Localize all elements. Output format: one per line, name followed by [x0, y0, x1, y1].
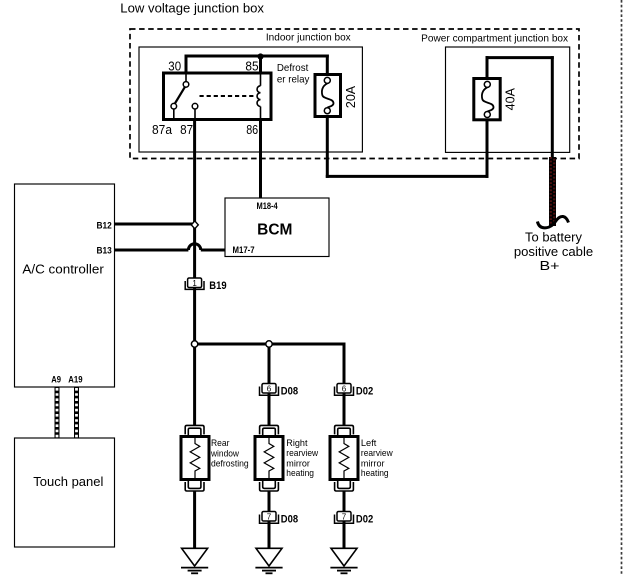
- svg-text:7: 7: [342, 512, 347, 521]
- svg-text:B19: B19: [209, 280, 226, 292]
- svg-text:To battery: To battery: [525, 230, 583, 244]
- svg-text:A19: A19: [68, 375, 82, 386]
- svg-text:heating: heating: [361, 468, 389, 479]
- svg-text:er relay: er relay: [277, 73, 310, 85]
- svg-text:A9: A9: [51, 375, 61, 386]
- svg-text:D02: D02: [356, 513, 373, 525]
- svg-text:A/C controller: A/C controller: [22, 261, 104, 276]
- svg-text:30: 30: [168, 59, 181, 74]
- svg-text:Power compartment junction box: Power compartment junction box: [421, 33, 568, 44]
- svg-text:Indoor junction box: Indoor junction box: [266, 32, 351, 43]
- svg-text:40A: 40A: [504, 87, 518, 110]
- svg-text:defrosting: defrosting: [211, 459, 249, 470]
- svg-text:Low voltage junction box: Low voltage junction box: [120, 1, 264, 16]
- svg-text:B13: B13: [97, 246, 112, 257]
- svg-text:87a: 87a: [152, 122, 173, 137]
- svg-text:86: 86: [246, 122, 258, 137]
- svg-text:Defrost: Defrost: [277, 62, 308, 74]
- svg-text:heating: heating: [286, 468, 314, 479]
- svg-text:B+: B+: [540, 259, 560, 273]
- svg-text:M17-7: M17-7: [233, 245, 255, 256]
- svg-text:1: 1: [192, 279, 197, 288]
- svg-text:B12: B12: [97, 221, 112, 232]
- svg-text:6: 6: [267, 384, 272, 393]
- svg-text:D02: D02: [356, 386, 373, 398]
- svg-text:87: 87: [180, 122, 193, 137]
- svg-text:M18-4: M18-4: [257, 201, 279, 212]
- svg-text:7: 7: [267, 512, 272, 521]
- svg-text:D08: D08: [281, 513, 298, 525]
- svg-text:positive cable: positive cable: [514, 245, 593, 259]
- svg-text:Touch panel: Touch panel: [33, 474, 103, 489]
- svg-text:D08: D08: [281, 386, 298, 398]
- svg-text:85: 85: [245, 59, 258, 74]
- svg-text:20A: 20A: [344, 85, 358, 108]
- svg-text:BCM: BCM: [257, 221, 292, 238]
- svg-text:6: 6: [342, 384, 347, 393]
